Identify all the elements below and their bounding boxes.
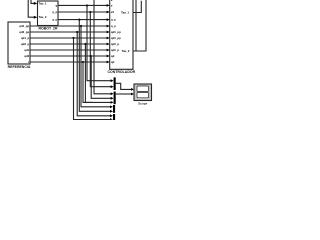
svg-text:qd: qd (111, 60, 115, 64)
mux3 bar (113, 105, 115, 113)
svg-text:Tau_1: Tau_1 (121, 10, 129, 14)
port labels controller inputs (111, 0, 121, 64)
mux2 bar (114, 92, 116, 105)
svg-text:Tau_2: Tau_2 (39, 15, 47, 19)
svg-text:e2: e2 (111, 10, 115, 14)
svg-text:q_p: q_p (111, 18, 116, 22)
svg-text:qd2_p: qd2_p (21, 42, 30, 46)
mux2 output wire to scope input 2 (116, 93, 132, 95)
svg-text:CONTROLADOR: CONTROLADOR (107, 70, 135, 74)
controller block CONTROLADOR (110, 0, 133, 69)
wire robot out3 y19.6 (58, 19, 107, 21)
svg-text:qd1_pp: qd1_pp (111, 36, 121, 40)
svg-text:qd2: qd2 (24, 54, 29, 58)
reference block REFERENCIA (8, 22, 30, 64)
arrows into mux3 (110, 105, 113, 108)
arrows into controller inputs 1-3 (107, 4, 110, 7)
mux1 bar (114, 77, 116, 90)
svg-text:t: t (28, 60, 29, 64)
arrows into mux1 (110, 79, 114, 120)
svg-text:q_p: q_p (52, 10, 57, 14)
mux4 bar (113, 114, 115, 120)
arrow into scope input 1 (131, 88, 134, 91)
branch verticals to scope muxes (74, 0, 111, 120)
svg-text:Tau_1: Tau_1 (39, 2, 47, 6)
junction dots (72, 4, 91, 63)
svg-text:qd1_pp: qd1_pp (111, 30, 121, 34)
svg-text:q_p: q_p (111, 24, 116, 28)
branch V77.2 to mux4 in1 (77, 32, 110, 116)
branch V90.4: robot out2 to mux1 in2 (90, 12, 111, 87)
svg-text:qd1_p: qd1_p (111, 48, 120, 52)
wire Tau_2 to robot input 2 (28, 0, 34, 17)
svg-text:qd1_p: qd1_p (111, 42, 120, 46)
controller output Tau_1 wire (133, 0, 146, 51)
branch V73.5 to mux4 in2 (74, 38, 111, 120)
port labels robot (39, 2, 47, 20)
reference output wires into controller inputs 4-10 (30, 26, 107, 62)
branch V94: off-top to mux2 in1 (94, 0, 111, 94)
svg-text:Scope: Scope (138, 102, 147, 106)
port labels controller outputs (121, 10, 130, 53)
svg-text:REFERENCIA: REFERENCIA (8, 65, 31, 69)
svg-text:qd: qd (111, 54, 115, 58)
robot output wires to controller inputs 1-3 (58, 5, 107, 19)
svg-text:Tau_2: Tau_2 (122, 49, 130, 53)
robot block ROBOT_2R (38, 1, 59, 26)
svg-text:qd1_pp: qd1_pp (19, 24, 29, 28)
arrows into mux2 (111, 92, 114, 95)
arrow into robot input 2 (34, 16, 38, 19)
branch V85 to mux2 in3 (85, 44, 110, 102)
labels (8, 27, 148, 106)
svg-text:qd1_p: qd1_p (21, 36, 30, 40)
arrow into robot input 1 (34, 2, 38, 5)
svg-text:ROBOT_2R: ROBOT_2R (38, 27, 58, 31)
arrows into mux4 (110, 114, 113, 117)
arrow into scope input 2 (131, 93, 134, 96)
vertical x136 (135, 0, 137, 51)
controller output Tau_2 wire (133, 0, 146, 51)
svg-text:q: q (55, 4, 57, 8)
branch V81 to mux3 in1 (81, 26, 110, 107)
wire robot out2 y12 (58, 11, 107, 13)
port labels reference outputs (19, 24, 29, 64)
svg-text:q_p: q_p (52, 18, 57, 22)
svg-text:qd1: qd1 (24, 48, 29, 52)
wire Tau_1 to robot input 1 (28, 0, 34, 17)
branch V91.5 to mux2 in2 (91, 56, 111, 98)
wire robot out1 y5.4 (58, 4, 107, 6)
svg-text:qd2_pp: qd2_pp (19, 30, 29, 34)
branch V87: robot out1 to mux1 in1 (87, 5, 111, 80)
branch V79.3: robot out3 to mux3 in2 (79, 20, 110, 112)
scope block (134, 84, 152, 101)
mux1 output wire to scope input 1 (116, 83, 132, 94)
